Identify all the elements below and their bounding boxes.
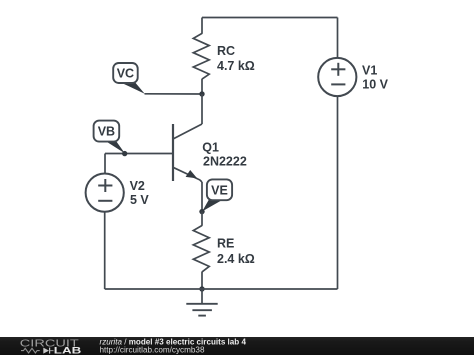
- wire RC bottom lead: [201, 79, 203, 94]
- svg-text:V2: V2: [130, 179, 145, 193]
- svg-text:RC: RC: [217, 44, 235, 58]
- wire top rail: [202, 17, 338, 19]
- wire VC stub: [145, 93, 203, 95]
- voltage source V2: [86, 174, 124, 212]
- footer bar: [0, 337, 474, 355]
- label Q1: [202, 140, 247, 168]
- wire RE bottom lead: [201, 272, 203, 289]
- node VB junction dot: [122, 151, 127, 156]
- svg-text:5 V: 5 V: [130, 193, 149, 207]
- svg-text:10 V: 10 V: [362, 77, 388, 91]
- wire RC top lead: [201, 18, 203, 34]
- flag VE: [202, 179, 232, 211]
- footer title: [100, 338, 247, 347]
- wire emitter lead: [201, 182, 203, 212]
- node ground junction dot: [199, 286, 204, 291]
- node VC junction dot: [199, 91, 204, 96]
- transistor Q1: [173, 124, 202, 182]
- wire V1 top lead: [337, 18, 339, 58]
- svg-text:Q1: Q1: [202, 140, 219, 154]
- wire collector lead: [201, 94, 203, 124]
- svg-text:VE: VE: [211, 183, 228, 197]
- wire V2 bottom lead: [104, 212, 106, 289]
- voltage source V1: [318, 58, 356, 96]
- svg-text:V1: V1: [362, 63, 377, 77]
- svg-text:2N2222: 2N2222: [203, 155, 247, 169]
- svg-text:2.4 kΩ: 2.4 kΩ: [217, 252, 255, 266]
- footer url: [100, 345, 206, 354]
- flag VC: [113, 63, 145, 94]
- flag VB: [94, 121, 125, 154]
- svg-text:VB: VB: [98, 125, 115, 139]
- svg-text:LAB: LAB: [54, 346, 82, 355]
- svg-text:http://circuitlab.com/cycmb38: http://circuitlab.com/cycmb38: [100, 345, 206, 354]
- wire VE to RE: [201, 212, 203, 226]
- ground: [186, 289, 217, 316]
- wire bottom rail: [105, 288, 338, 290]
- node VE junction dot: [199, 209, 204, 214]
- label RC value: [217, 44, 255, 73]
- label RE value: [217, 237, 255, 266]
- svg-text:RE: RE: [217, 237, 234, 251]
- label V2 value: [130, 179, 150, 207]
- logo CircuitLab: [20, 339, 82, 355]
- resistor RC: [193, 33, 209, 79]
- label V1 value: [362, 63, 389, 91]
- resistor RE: [193, 226, 209, 272]
- svg-text:VC: VC: [117, 67, 134, 81]
- wire base: [105, 153, 173, 155]
- svg-text:4.7 kΩ: 4.7 kΩ: [217, 59, 255, 73]
- wire V2 top lead: [104, 154, 106, 174]
- wire V1 bottom lead: [337, 97, 339, 289]
